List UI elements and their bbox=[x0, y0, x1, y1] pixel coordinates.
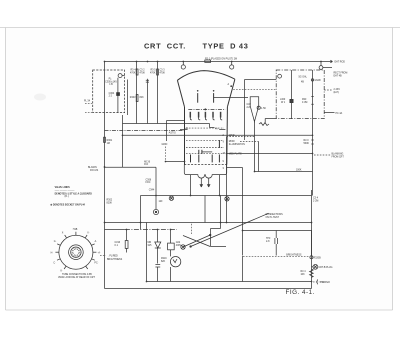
svg-text:MR: MR bbox=[148, 242, 152, 244]
svg-text:W 1: W 1 bbox=[281, 102, 286, 104]
svg-text:1·5K: 1·5K bbox=[261, 108, 266, 110]
svg-text:C3·3: C3·3 bbox=[160, 70, 166, 72]
svg-text:1 B: 1 B bbox=[109, 84, 113, 86]
svg-text:R433: R433 bbox=[130, 97, 136, 99]
svg-text:R320B: R320B bbox=[314, 258, 322, 260]
svg-text:470K: 470K bbox=[150, 73, 156, 75]
svg-text:TYPE D 43: TYPE D 43 bbox=[203, 42, 249, 51]
svg-text:ON PL TEST: ON PL TEST bbox=[266, 217, 280, 219]
svg-text:2·2KV: 2·2KV bbox=[334, 89, 341, 91]
svg-text:5G GAL: 5G GAL bbox=[299, 76, 308, 79]
svg-text:R3·1 (PLACED ON PILOT) 2M: R3·1 (PLACED ON PILOT) 2M bbox=[205, 58, 237, 61]
svg-text:VIEW LOOKING AT REAR OF CRT: VIEW LOOKING AT REAR OF CRT bbox=[58, 276, 95, 279]
svg-text:ILLUMINATION: ILLUMINATION bbox=[229, 143, 245, 146]
svg-text:GRID: GRID bbox=[162, 144, 168, 146]
svg-text:X·: X· bbox=[62, 233, 65, 235]
svg-text:R3·4: R3·4 bbox=[131, 70, 137, 72]
svg-text:2·2M: 2·2M bbox=[313, 201, 318, 203]
svg-text:H·: H· bbox=[51, 252, 54, 254]
svg-text:C·: C· bbox=[53, 263, 56, 265]
svg-text:560K: 560K bbox=[304, 143, 310, 145]
svg-text:BRIGHTNESS: BRIGHTNESS bbox=[107, 259, 123, 261]
svg-text:MOD/: MOD/ bbox=[229, 141, 235, 143]
svg-text:R319: R319 bbox=[161, 258, 167, 260]
svg-text:C32: C32 bbox=[247, 104, 252, 106]
svg-text:FIG. 4-1.: FIG. 4-1. bbox=[286, 289, 315, 296]
svg-text:VALVE LINKS: VALVE LINKS bbox=[55, 186, 70, 189]
svg-text:PC·: PC· bbox=[94, 263, 98, 265]
svg-text:K·: K· bbox=[61, 271, 64, 273]
svg-text:82K: 82K bbox=[140, 97, 145, 99]
svg-text:V·: V· bbox=[87, 233, 90, 235]
svg-text:PL 34: PL 34 bbox=[84, 101, 91, 103]
svg-text:FROM CRT: FROM CRT bbox=[332, 157, 345, 159]
svg-text:R33: R33 bbox=[302, 99, 307, 101]
svg-text:PC 4A: PC 4A bbox=[336, 112, 343, 115]
svg-text:R3·0: R3·0 bbox=[304, 140, 310, 142]
svg-text:EHT 4B: EHT 4B bbox=[334, 76, 343, 78]
svg-text:CRT-B PLUG: CRT-B PLUG bbox=[319, 267, 333, 269]
svg-text:10K: 10K bbox=[301, 274, 306, 276]
svg-text:(E.P.): (E.P.) bbox=[334, 92, 340, 94]
svg-text:R3·5: R3·5 bbox=[151, 70, 157, 72]
svg-text:R3·4: R3·4 bbox=[301, 271, 307, 273]
svg-text:C316: C316 bbox=[115, 242, 121, 244]
svg-text:(R.·): (R.·) bbox=[65, 196, 70, 198]
svg-text:BL/GRN: BL/GRN bbox=[88, 167, 97, 169]
svg-text:3·3M: 3·3M bbox=[302, 102, 307, 104]
svg-text:MED PLATE: MED PLATE bbox=[229, 153, 242, 156]
svg-text:C3·4: C3·4 bbox=[313, 198, 319, 200]
svg-text:C344: C344 bbox=[149, 190, 155, 192]
svg-text:+A·: +A· bbox=[215, 127, 219, 130]
svg-text:FOCUS: FOCUS bbox=[90, 170, 99, 172]
svg-text:H1B: H1B bbox=[73, 229, 78, 231]
svg-text:470K: 470K bbox=[160, 73, 166, 75]
svg-text:EHT ROD: EHT ROD bbox=[335, 61, 346, 63]
svg-text:-A·: -A· bbox=[98, 251, 101, 254]
svg-text:A·: A· bbox=[95, 240, 98, 243]
svg-text:CONNECTIONS: CONNECTIONS bbox=[266, 214, 284, 216]
svg-text:82K: 82K bbox=[161, 261, 166, 263]
svg-text:GN08: GN08 bbox=[315, 80, 322, 82]
svg-text:·ASTIG: ·ASTIG bbox=[168, 132, 176, 135]
svg-text:4B: 4B bbox=[301, 82, 304, 84]
svg-text:BRIGHTNESS: BRIGHTNESS bbox=[286, 255, 302, 257]
svg-text:→PL/RED: →PL/RED bbox=[107, 256, 118, 258]
svg-text:C3·2: C3·2 bbox=[140, 70, 146, 72]
svg-text:FOC: FOC bbox=[146, 182, 151, 184]
svg-text:⊗ DENOTES SOCKET ON PL44: ⊗ DENOTES SOCKET ON PL44 bbox=[50, 204, 85, 207]
svg-text:12F: 12F bbox=[159, 201, 164, 203]
svg-text:470K: 470K bbox=[130, 73, 136, 75]
svg-text:G02: G02 bbox=[176, 242, 181, 244]
svg-text:820K: 820K bbox=[107, 203, 113, 205]
svg-text:L300: L300 bbox=[280, 99, 286, 101]
svg-text:TUBE CONNECTIONS 4-5B: TUBE CONNECTIONS 4-5B bbox=[62, 274, 92, 276]
svg-text:—— ——— ———: —— ——— ——— bbox=[55, 190, 76, 192]
svg-text:100K: 100K bbox=[296, 170, 302, 172]
svg-text:G·: G· bbox=[54, 241, 57, 243]
svg-text:BLANKING: BLANKING bbox=[332, 153, 344, 156]
svg-text:DENOTES (-) STYLE A (1) BOARD: DENOTES (-) STYLE A (1) BOARD bbox=[55, 192, 93, 195]
svg-text:1M: 1M bbox=[107, 143, 110, 145]
svg-text:PL·: PL· bbox=[109, 79, 113, 81]
svg-text:R301: R301 bbox=[107, 140, 113, 142]
svg-text:CRT CCT.: CRT CCT. bbox=[144, 42, 186, 51]
svg-text:R·D: R·D bbox=[144, 164, 148, 166]
svg-text:TP3: TP3 bbox=[266, 238, 271, 240]
svg-text:470K: 470K bbox=[140, 73, 146, 75]
svg-text:RECT FROM: RECT FROM bbox=[334, 73, 348, 75]
svg-text:HEATER: HEATER bbox=[321, 281, 331, 284]
svg-text:R302: R302 bbox=[107, 200, 113, 202]
